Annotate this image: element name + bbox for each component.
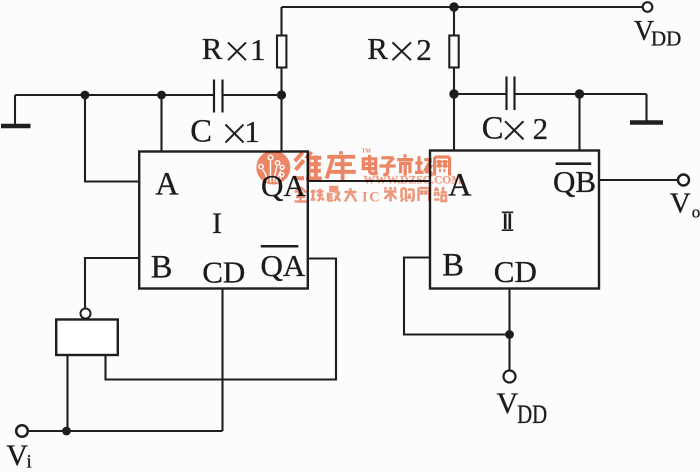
svg-text:V: V xyxy=(6,439,28,472)
svg-text:A: A xyxy=(155,166,179,202)
terminal VDD top xyxy=(643,2,653,12)
svg-text:I: I xyxy=(362,189,368,205)
wire CD pin U2 xyxy=(508,289,510,371)
label VDD top xyxy=(634,16,681,51)
wire C1 left to U1 top xyxy=(160,95,162,152)
watermark slogan glyphs xyxy=(295,187,448,202)
wire A pin U1 xyxy=(85,95,139,182)
watermark brand name big glyphs xyxy=(294,151,356,180)
ground left xyxy=(1,95,31,126)
junction B CD U2 xyxy=(505,330,514,339)
svg-text:R: R xyxy=(367,31,388,66)
wire QB out xyxy=(599,179,678,181)
svg-text:DD: DD xyxy=(651,27,681,51)
junction Vi xyxy=(62,427,71,436)
wire left rail xyxy=(15,94,214,96)
resistor R2 xyxy=(449,7,458,94)
svg-text:R: R xyxy=(202,31,223,66)
wire B pin U1 xyxy=(85,258,139,309)
junction R2 bottom xyxy=(449,89,458,98)
svg-text:o: o xyxy=(692,203,700,222)
watermark logo circle xyxy=(256,151,290,185)
label Vi xyxy=(6,439,31,472)
watermark site name glyphs xyxy=(363,154,449,176)
svg-text:B: B xyxy=(442,247,464,283)
label II xyxy=(502,212,513,230)
watermark xyxy=(256,149,462,206)
junction R1 bottom xyxy=(277,90,286,99)
svg-text:C: C xyxy=(482,111,504,147)
svg-text:1: 1 xyxy=(244,114,260,149)
wire B pin U2 xyxy=(404,258,510,335)
terminal Vi xyxy=(16,425,28,437)
svg-text:WWW.DZSC.COM: WWW.DZSC.COM xyxy=(364,173,463,186)
terminal VDD bottom xyxy=(504,371,516,383)
svg-text:QA: QA xyxy=(261,248,306,283)
svg-text:i: i xyxy=(27,452,32,472)
label C1 value xyxy=(190,114,260,150)
wire bottom Vi to CD xyxy=(28,430,223,432)
wire R1 junction to U1 top xyxy=(280,95,282,152)
wire QA-bar feedback xyxy=(106,259,337,380)
IC U2 monostable II xyxy=(430,151,599,289)
svg-text:C: C xyxy=(190,114,212,150)
wire top rail xyxy=(282,6,643,8)
svg-text:QB: QB xyxy=(553,164,596,199)
wire block left lead xyxy=(66,355,68,431)
label Vo xyxy=(670,188,700,222)
capacitor C2 xyxy=(454,77,580,111)
svg-text:DD: DD xyxy=(517,401,547,430)
wire CD pin U1 xyxy=(221,289,223,432)
svg-text:2: 2 xyxy=(416,32,432,67)
svg-text:2: 2 xyxy=(533,111,549,146)
pin label QB-bar U2 xyxy=(553,164,596,199)
junction C2 right xyxy=(575,89,584,98)
terminal Vo xyxy=(678,175,689,186)
transducer block xyxy=(56,309,118,356)
label R2 value xyxy=(367,31,432,67)
wire R2 to U2 top xyxy=(453,94,455,151)
resistor R1 xyxy=(277,7,286,95)
svg-text:B: B xyxy=(151,249,173,285)
pin label QA-bar U1 xyxy=(261,246,306,283)
junction node A xyxy=(81,91,90,100)
svg-text:1: 1 xyxy=(250,32,266,67)
svg-text:CD: CD xyxy=(494,254,537,289)
wire QA to A of U2 xyxy=(308,180,430,182)
svg-text:V: V xyxy=(670,188,691,220)
svg-text:C: C xyxy=(369,189,379,205)
junction R2 top xyxy=(449,2,458,11)
junction C1 left xyxy=(157,91,166,100)
label C2 value xyxy=(482,111,548,147)
label VDD bottom xyxy=(497,387,548,430)
svg-text:TM: TM xyxy=(362,149,372,155)
svg-text:V: V xyxy=(497,387,519,420)
ground right xyxy=(580,94,664,123)
wire C2 right to U2 top xyxy=(578,94,580,151)
capacitor C1 xyxy=(214,80,282,113)
IC U1 monostable I xyxy=(139,152,308,289)
label R1 value xyxy=(202,31,266,67)
svg-text:I: I xyxy=(212,207,222,240)
svg-text:CD: CD xyxy=(202,255,245,290)
